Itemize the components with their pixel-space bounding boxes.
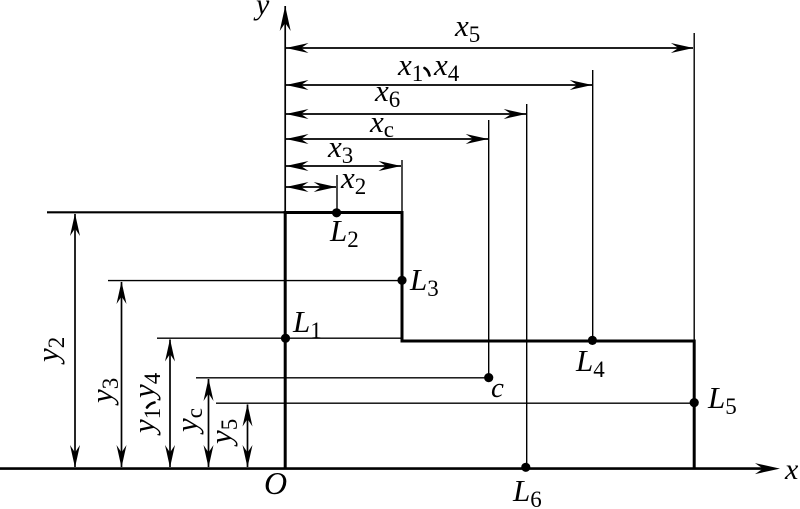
node c (centroid) [484,373,493,382]
guide line y=377 (level of c, for yc) [196,377,489,379]
dimension arrow y5 [243,404,253,468]
shape right edge of wide part (x=694) [693,340,696,469]
dimension arrow xc [286,134,488,144]
svg-text:y2: y2 [30,337,69,365]
x-axis arrowhead [755,463,780,474]
svg-text:y4: y4 [126,372,165,401]
enumeration comma between y1 and y4 [147,403,155,408]
svg-text:y1: y1 [126,408,165,436]
x-axis [0,467,764,470]
y-axis [284,6,286,212]
svg-text:L6: L6 [512,473,542,509]
extension line x=337 (above L2, for x2) [336,175,338,212]
svg-text:c: c [491,372,504,404]
svg-text:y: y [253,0,270,21]
shape top edge of wide part (y=341) [401,340,696,343]
node L2 [332,208,341,217]
guide line y=212 (level of top edge, for y2) [47,211,285,213]
svg-text:L3: L3 [409,262,439,301]
svg-text:O: O [264,465,287,501]
dimension arrow y1,y4 [165,339,175,468]
extension line x=402 (above corner, for x3) [401,160,403,211]
svg-text:L4: L4 [575,343,605,382]
node L1 [281,334,290,343]
dimension arrow x6 [286,109,526,119]
dimension arrow x2 [286,182,336,192]
node L3 [397,276,406,285]
svg-text:L1: L1 [292,304,322,343]
dimension arrow y3 [117,282,127,468]
svg-text:y3: y3 [84,378,123,406]
svg-text:x1: x1 [397,47,423,86]
dimension arrow x5 [286,43,693,53]
enumeration comma between x1 and x4 [425,68,430,76]
guide line y=280 (level of L3, for y3) [108,280,402,282]
svg-text:L2: L2 [329,213,359,252]
dimension arrow x1,x4 [286,80,592,90]
dimension arrow y2 [70,214,80,468]
shape right edge of tall part (x=402) [401,211,404,343]
guide line x=489 (down to c, for xc) [488,120,490,378]
dimension arrow yc [204,379,214,468]
shape left edge (x=285) [284,211,287,468]
svg-text:x5: x5 [454,8,480,47]
svg-text:x: x [784,453,799,486]
guide line x=527 (down to L6, for x6) [526,104,528,468]
dimension arrow x3 [286,161,401,171]
node L4 [588,336,597,345]
svg-text:L5: L5 [707,380,737,419]
node L5 [690,398,699,407]
dimension label y1 (rotated) [126,372,165,436]
node L6 [521,463,530,472]
svg-text:yc: yc [169,408,207,435]
shape top edge of tall part (y=212.5) [284,211,404,214]
guide line y=403 (level of L5, for y5) [216,402,694,404]
y-axis arrowhead [280,6,291,31]
guide line x=593 (down to L4, for x1,x4) [592,70,594,340]
svg-text:x4: x4 [433,47,460,86]
guide line y=338 (level of L1, for y1,y4) [157,337,402,339]
guide line x=694 (upper part, for x5) [693,33,695,340]
